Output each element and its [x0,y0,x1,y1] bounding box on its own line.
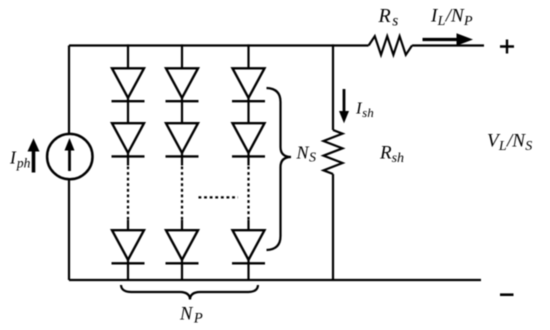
label Rsh [379,143,404,167]
cathode bar D31 [232,100,265,102]
label Ish [355,99,374,121]
cathode bar D32 [232,155,265,157]
wire column2 below D23 [181,260,183,280]
wire stem column1 above D13 [127,220,129,230]
diode D32 [233,123,265,153]
wire column3 between D31 and D32 [247,98,249,123]
diode D11 [112,68,144,98]
wire top from Rs to + terminal [412,44,484,46]
wire column1 below D13 [127,260,129,280]
brace NS right of column3 [267,88,292,250]
wire shunt branch upper [332,44,334,130]
svg-text:NP: NP [179,305,203,327]
diode D21 [166,68,198,98]
dashed continuation column3 [247,167,249,221]
wire stem column3 above D33 [247,220,249,230]
diode D33 [233,230,265,260]
diode D22 [166,123,198,153]
cathode bar D13 [112,262,145,264]
diode D12 [112,123,144,153]
wire shunt branch lower [332,174,334,280]
cathode bar D33 [232,262,265,264]
wire column3 below D32 [247,153,249,166]
brace NP under diode columns [121,285,258,300]
diode D23 [166,230,198,260]
arrow Ish direction [339,89,349,123]
arrow IL/NP current direction [423,33,474,45]
label NS [296,142,317,165]
wire stem column2 top [181,44,183,68]
wire stem column2 above D23 [181,220,183,230]
terminal plus [500,40,514,54]
wire column2 below D22 [181,153,183,166]
svg-text:IL/NP: IL/NP [430,6,473,30]
svg-text:Iph: Iph [9,148,31,171]
wire left vertical upper [68,46,70,135]
wire top from left corner to Rs [69,44,369,46]
label VL/NS [487,131,532,155]
cathode bar D21 [166,100,199,102]
svg-text:NS: NS [296,142,317,165]
wire column2 between D21 and D22 [181,98,183,123]
dashed continuation column1 [127,167,129,221]
label NP [179,305,203,327]
dashed ellipsis between column2 and column3 [199,196,239,198]
wire column1 between D11 and D12 [127,98,129,123]
svg-text:Ish: Ish [355,99,374,121]
current source Iph circle [47,134,92,179]
wire column3 below D33 [247,260,249,280]
wire left vertical lower [68,180,70,281]
svg-text:Rs: Rs [378,5,399,30]
wire stem column1 top [127,44,129,68]
diode D13 [112,230,144,260]
svg-text:VL/NS: VL/NS [487,131,532,155]
terminal minus [500,293,514,296]
cathode bar D23 [166,262,199,264]
arrow Iph direction [28,138,40,172]
dashed continuation column2 [181,167,183,221]
label Iph [9,148,31,171]
resistor Rsh zigzag [324,130,343,174]
wire stem column3 top [247,44,249,68]
diode D31 [233,68,265,98]
label Rs [378,5,399,30]
label IL/NP [430,6,473,30]
cathode bar D11 [112,100,145,102]
wire bottom from left corner to end [69,279,481,281]
resistor Rs zigzag [369,36,412,55]
svg-text:Rsh: Rsh [379,143,404,167]
wire column1 below D12 [127,153,129,166]
cathode bar D12 [112,155,145,157]
cathode bar D22 [166,155,199,157]
